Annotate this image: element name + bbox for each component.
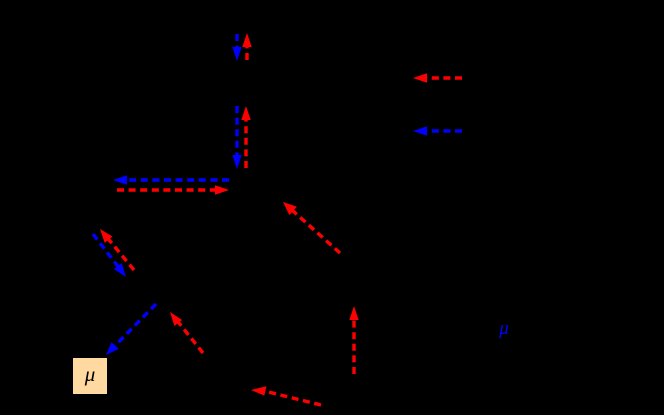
blue mu label — [498, 318, 509, 339]
blue left arrow (horizontal pair) — [113, 175, 229, 184]
blue diagonal down-right arrow (left pair) — [93, 234, 126, 277]
red diagonal up-left arrow (center) — [283, 202, 340, 253]
blue diagonal down-left arrow (into mu box) — [106, 304, 156, 355]
red diagonal up-left arrow (above mu box) — [170, 312, 203, 353]
svg-text:μ: μ — [84, 362, 96, 386]
red up arrow (long, mid-left trunk) — [241, 106, 250, 168]
blue left arrow (mid right) — [413, 126, 462, 135]
svg-text:μ: μ — [498, 318, 509, 339]
blue down arrow (long, mid-left trunk) — [232, 106, 241, 169]
red up arrow (top short) — [242, 33, 251, 60]
red diagonal up-left arrow (left pair) — [100, 229, 134, 270]
red left arrow (bottom) — [251, 386, 321, 405]
blue down arrow (top short) — [232, 34, 241, 61]
orange mu box — [73, 358, 107, 394]
red up arrow (lower right vertical) — [349, 306, 358, 374]
red right arrow (horizontal pair) — [117, 185, 229, 194]
red left arrow (upper right) — [413, 73, 462, 82]
